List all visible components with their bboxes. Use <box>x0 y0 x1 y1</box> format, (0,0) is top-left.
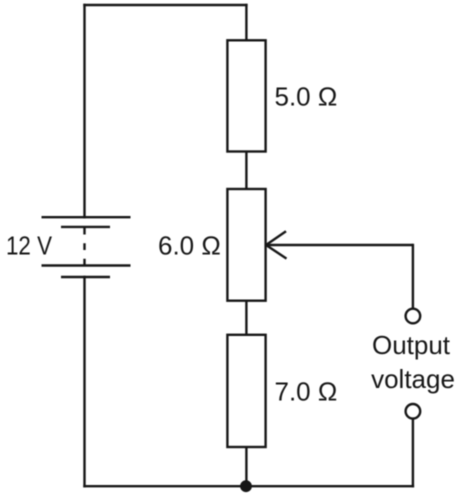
battery B1 (12 V, two cells with dashed middle) <box>42 217 131 277</box>
battery short plate (cell 1 negative) <box>61 226 110 228</box>
battery short plate (cell 2 negative) <box>61 276 110 278</box>
wire: left vertical from top wire to battery positive plate <box>83 5 85 217</box>
battery dashed link between cells <box>83 228 85 266</box>
wire: wiper lead down to upper output terminal <box>412 245 414 308</box>
wire: R3 to bottom wire <box>245 447 247 486</box>
lower output terminal (open circle) <box>406 404 421 419</box>
svg-text:5.0 Ω: 5.0 Ω <box>275 82 338 112</box>
battery long plate (cell 2 positive) <box>42 264 131 266</box>
potentiometer wiper arrow into R2 <box>266 231 413 258</box>
junction node at bottom wire <box>240 480 252 492</box>
wire: bottom horizontal from left branch to output branch <box>85 485 413 487</box>
wire: top horizontal from left branch to resistor branch <box>85 4 247 6</box>
resistor R1 5.0 ohm <box>227 40 265 151</box>
wire: from top wire down to resistor R1 <box>245 5 247 40</box>
svg-text:12 V: 12 V <box>6 230 53 260</box>
upper output terminal (open circle) <box>406 309 421 324</box>
resistor R2 6.0 ohm (potentiometer track) <box>227 189 265 301</box>
svg-text:voltage: voltage <box>371 364 455 394</box>
wire: lower output terminal down to bottom wire <box>412 419 414 486</box>
wire: between R2 and R3 <box>245 301 247 335</box>
svg-text:7.0 Ω: 7.0 Ω <box>275 377 338 407</box>
svg-text:Output: Output <box>372 330 451 360</box>
svg-text:6.0 Ω: 6.0 Ω <box>158 230 221 260</box>
wire: between R1 and R2 <box>245 152 247 190</box>
resistor R3 7.0 ohm <box>227 335 265 447</box>
wire: left vertical from battery negative to bottom wire <box>83 277 85 486</box>
battery long plate (cell 1 positive) <box>42 216 131 218</box>
